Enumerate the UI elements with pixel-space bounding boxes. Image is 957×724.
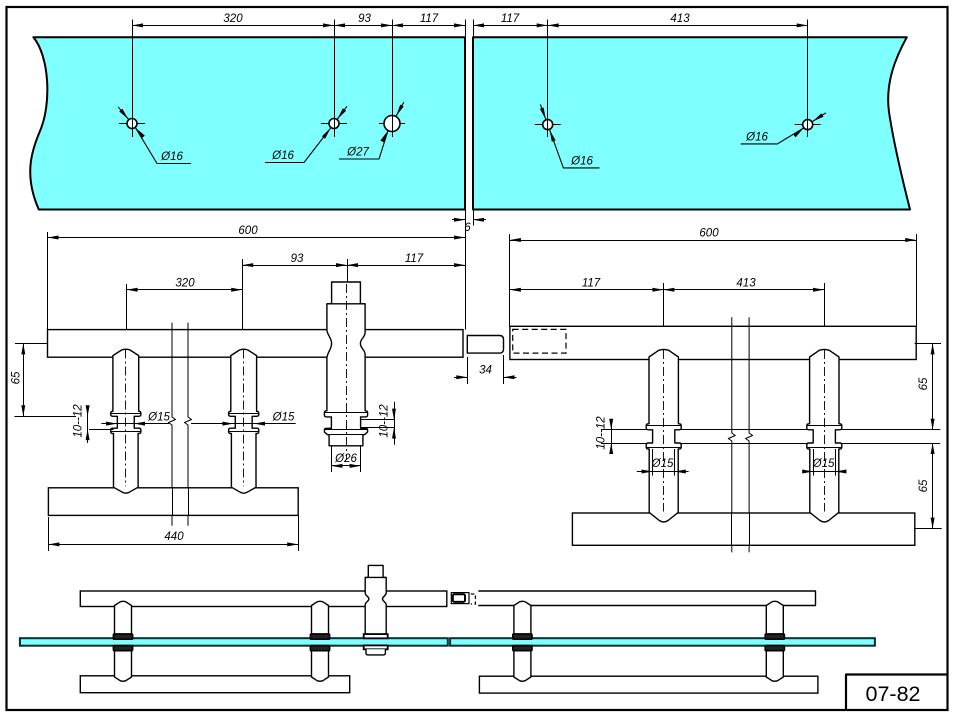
bottom view: latch bolt between doors — [451, 593, 469, 604]
right handle bar (front view) — [510, 326, 916, 359]
post 1 tip into bottom bar — [114, 486, 139, 493]
dim Ø15 post 1 — [101, 423, 169, 425]
hole 1 Ø16 in left glass — [119, 123, 145, 125]
svg-text:10--12: 10--12 — [73, 404, 85, 438]
svg-text:440: 440 — [164, 531, 184, 543]
dim 10--12 left of post 1 — [89, 429, 114, 431]
break line pair right door — [728, 317, 735, 552]
dim 65 lower right — [915, 528, 942, 530]
bottom view: central lock fixture body — [365, 565, 386, 634]
hole 5 Ø16 in right glass — [795, 124, 821, 126]
hole 3 Ø27 in left glass — [379, 123, 405, 125]
leader + label Ø16 for hole 1 — [136, 128, 145, 139]
left handle bar (front view) — [48, 330, 464, 358]
ext lines right posts — [663, 283, 665, 350]
svg-text:Ø15: Ø15 — [272, 412, 295, 424]
glass surface lines right door — [601, 429, 940, 431]
leader + label Ø16 for hole 4 — [550, 130, 556, 142]
svg-text:10--12: 10--12 — [379, 404, 391, 438]
ext lines right bar ends — [509, 234, 511, 326]
bottom view: left door near bar — [80, 676, 349, 693]
leader + label Ø27 for hole 3 — [380, 131, 388, 143]
dim line 117/413 top right — [473, 25, 808, 27]
svg-text:65: 65 — [918, 377, 930, 390]
post B right door (front view) — [807, 349, 842, 522]
dim Ø15 post B — [813, 449, 815, 476]
bottom view: left door far bar — [80, 591, 447, 607]
svg-text:Ø15: Ø15 — [812, 458, 835, 470]
svg-text:Ø16: Ø16 — [745, 132, 768, 144]
latch stub on left bar right end — [467, 336, 503, 354]
dim 65 upper right — [915, 343, 941, 345]
glass pane edge-on right (bottom view) — [450, 638, 875, 646]
svg-text:413: 413 — [670, 13, 690, 25]
svg-text:65: 65 — [918, 479, 930, 492]
post 2 tip into bottom bar — [231, 486, 256, 493]
svg-text:Ø15: Ø15 — [147, 412, 170, 424]
svg-text:Ø26: Ø26 — [334, 453, 357, 465]
svg-text:117: 117 — [405, 253, 424, 265]
svg-text:Ø27: Ø27 — [346, 147, 369, 159]
bottom view: right door near bar — [479, 676, 818, 693]
dim Ø15 post A — [652, 449, 654, 476]
svg-text:93: 93 — [358, 13, 371, 25]
break lines through bottom bar — [172, 488, 174, 516]
dim 10--12 right of fixture — [361, 419, 395, 421]
dim 117/413 right — [510, 289, 824, 291]
clamp rings post 2 (bottom view) — [310, 634, 329, 639]
svg-text:117: 117 — [420, 13, 439, 25]
svg-text:Ø16: Ø16 — [271, 150, 294, 162]
dim 93/117 left — [242, 265, 465, 267]
dim 6 (gap between panels) — [452, 219, 465, 221]
dim 440 under bottom bar — [48, 517, 50, 551]
title block box — [846, 675, 948, 711]
glass panel right (top view) — [473, 37, 910, 209]
post A right door (front view) — [646, 349, 681, 522]
clamp rings post B (bottom view) — [765, 634, 784, 639]
post A tip into right bottom bar — [649, 512, 678, 522]
post B tip into right bottom bar — [810, 512, 839, 522]
svg-text:93: 93 — [291, 253, 304, 265]
post 1 left door (front view) — [111, 349, 141, 493]
svg-text:Ø16: Ø16 — [570, 156, 593, 168]
svg-text:Ø15: Ø15 — [651, 458, 674, 470]
hidden latch pocket (dashed) in right bar — [513, 329, 566, 353]
gap extension lines below glass — [465, 210, 467, 330]
svg-text:07-82: 07-82 — [866, 682, 921, 706]
dim 600 right — [510, 240, 916, 242]
svg-text:117: 117 — [582, 278, 601, 290]
break line pair left door — [169, 323, 176, 526]
svg-text:6: 6 — [464, 222, 471, 234]
bottom view: right door far bar — [478, 591, 815, 606]
extension lines above glass holes — [132, 20, 134, 138]
svg-text:600: 600 — [238, 225, 258, 237]
hole 4 Ø16 in right glass — [535, 124, 561, 126]
glass pane edge-on left (bottom view) — [20, 638, 448, 646]
svg-text:65: 65 — [11, 371, 23, 384]
svg-text:413: 413 — [736, 278, 756, 290]
bottom view: right door post A — [514, 601, 531, 681]
post 2 left door (front view) — [229, 349, 259, 493]
dim 10--12 right door — [611, 420, 613, 453]
dim 600 left — [48, 237, 466, 239]
dim line 320/93/117 top left — [132, 25, 465, 27]
bottom view: left door post 2 — [312, 601, 329, 681]
right door bottom bar (front view) — [572, 513, 914, 545]
svg-text:320: 320 — [175, 278, 195, 290]
svg-text:117: 117 — [501, 13, 520, 25]
glass panel left (top view) — [30, 37, 465, 209]
central lock fixture left door (front view) — [324, 282, 367, 446]
svg-text:Ø16: Ø16 — [160, 151, 183, 163]
svg-text:34: 34 — [479, 365, 492, 377]
leader + label Ø16 for hole 5 — [793, 128, 804, 137]
left door bottom bar (front view) — [48, 488, 298, 516]
dim 65 far left — [15, 343, 48, 345]
clamp rings post 1 (bottom view) — [113, 634, 132, 639]
break lines through right bottom bar — [731, 513, 733, 545]
bottom view: dashed latch receiver — [471, 594, 476, 604]
svg-text:320: 320 — [223, 13, 243, 25]
hole 2 Ø16 in left glass — [321, 123, 347, 125]
bottom view: left door post 1 — [115, 601, 132, 681]
leader + label Ø16 for hole 2 — [322, 128, 331, 139]
svg-text:600: 600 — [699, 228, 719, 240]
dim 34 under latch stub — [467, 357, 469, 384]
clamp rings post A (bottom view) — [513, 634, 532, 639]
svg-text:10--12: 10--12 — [596, 416, 608, 450]
dim 320 left — [127, 289, 243, 291]
ext line left bar left end — [47, 232, 49, 330]
bottom view: right door post B — [766, 601, 783, 681]
dim Ø15 post 2 — [220, 423, 296, 425]
ext lines left posts — [242, 259, 244, 349]
dim Ø26 below fixture — [331, 446, 333, 472]
fixture clamp flanges + lower nut (bottom view) — [364, 634, 388, 638]
